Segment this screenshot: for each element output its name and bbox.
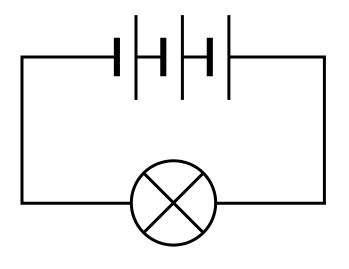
lamp L1 cross stroke 1 (144, 173, 204, 233)
lamp L1 circle (131, 161, 215, 245)
wire: left vertical side (21, 57, 24, 203)
battery B1 cell 3 negative plate (short thick) (207, 38, 213, 77)
wire: right vertical side (323, 57, 326, 203)
battery B1 cell 2 negative plate (short thick) (160, 38, 166, 77)
wire: between cell 2 and cell 3 (182, 56, 207, 59)
lamp L1 cross stroke 2 (144, 173, 204, 233)
battery B1 cell 3 positive plate (long thin) (227, 15, 230, 100)
wire: between cell 1 and cell 2 (136, 56, 161, 59)
battery B1 cell 1 positive plate (long thin) (135, 15, 138, 100)
wire: bottom-left horizontal to lamp (21, 202, 132, 205)
wire: bottom-right horizontal from lamp (215, 202, 326, 205)
battery B1 cell 2 positive plate (long thin) (181, 15, 184, 100)
battery B1 cell 1 negative plate (short thick) (114, 38, 120, 77)
wire: top-right horizontal from battery (229, 56, 326, 59)
wire: top-left horizontal to battery (21, 56, 116, 59)
